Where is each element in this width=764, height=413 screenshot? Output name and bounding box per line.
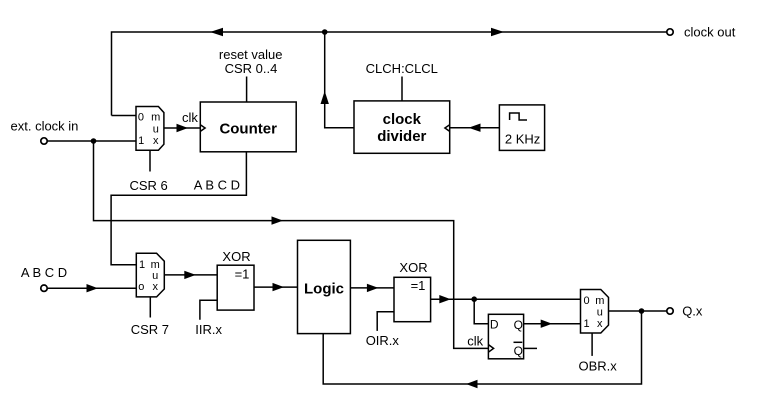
svg-text:m: m	[595, 295, 604, 307]
svg-text:reset value: reset value	[219, 47, 283, 62]
svg-text:XOR: XOR	[399, 260, 427, 275]
svg-text:D: D	[490, 318, 499, 332]
svg-text:divider: divider	[377, 128, 426, 145]
svg-text:2 KHz: 2 KHz	[505, 132, 540, 147]
svg-text:1: 1	[583, 318, 589, 330]
svg-text:A B C D: A B C D	[21, 265, 67, 280]
svg-text:clk: clk	[182, 110, 198, 125]
svg-text:ext. clock in: ext. clock in	[11, 119, 79, 134]
svg-text:u: u	[153, 123, 159, 135]
svg-text:Q.x: Q.x	[682, 304, 703, 319]
svg-text:OBR.x: OBR.x	[579, 359, 618, 374]
svg-text:CSR 6: CSR 6	[130, 178, 168, 193]
svg-text:Counter: Counter	[219, 120, 277, 137]
svg-text:=1: =1	[235, 267, 250, 282]
svg-text:=1: =1	[411, 278, 426, 293]
svg-text:A B C D: A B C D	[194, 178, 240, 193]
svg-text:CSR 7: CSR 7	[131, 322, 169, 337]
svg-text:u: u	[597, 307, 603, 319]
svg-text:Logic: Logic	[304, 281, 344, 298]
svg-text:0: 0	[583, 295, 589, 307]
svg-text:clock out: clock out	[684, 25, 736, 40]
svg-text:IIR.x: IIR.x	[195, 322, 222, 337]
svg-text:1: 1	[139, 259, 145, 271]
svg-text:Q: Q	[514, 318, 523, 332]
svg-text:clock: clock	[383, 111, 422, 128]
svg-text:m: m	[151, 111, 160, 123]
svg-text:x: x	[152, 281, 158, 293]
svg-text:clk: clk	[467, 334, 483, 349]
svg-text:OIR.x: OIR.x	[366, 333, 400, 348]
svg-text:XOR: XOR	[222, 249, 250, 264]
svg-text:0: 0	[138, 111, 144, 123]
svg-text:o: o	[138, 281, 144, 293]
svg-text:Q: Q	[514, 344, 523, 358]
svg-text:x: x	[153, 135, 159, 147]
svg-text:CLCH:CLCL: CLCH:CLCL	[366, 61, 438, 76]
svg-text:CSR 0..4: CSR 0..4	[225, 61, 278, 76]
svg-text:x: x	[597, 318, 603, 330]
svg-text:1: 1	[138, 135, 144, 147]
